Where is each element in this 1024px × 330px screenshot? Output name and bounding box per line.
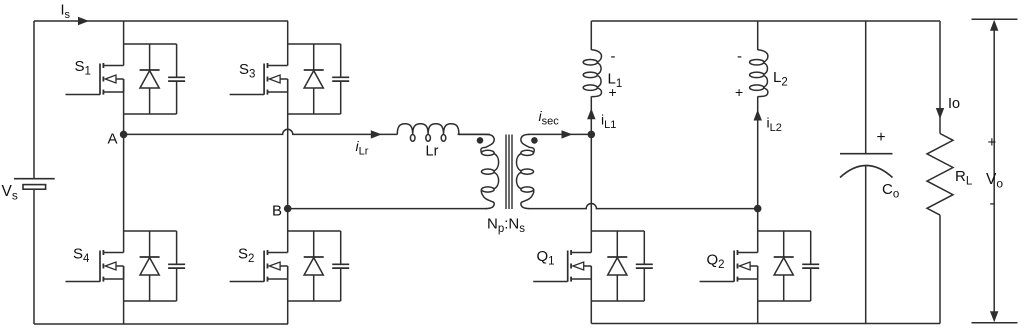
wire: left rail upper (Vs + to top bus) [33,21,35,178]
svg-text:isec: isec [539,108,560,128]
transistor Q1 [533,250,591,282]
svg-text:-: - [611,48,616,65]
wire: secondary top bus [591,20,940,22]
snubber capacitor of S4 [168,231,185,301]
wire: node A down to S4 drain [123,134,125,252]
wire: Q1 source to secondary bottom bus [590,266,592,324]
wire: bottom rail of S1 cell [124,113,177,115]
battery Vs [14,179,55,190]
snubber capacitor of S1 [168,44,185,114]
body diode of Q2 [774,231,794,301]
svg-text:Co: Co [882,181,899,201]
svg-text:Np:Ns: Np:Ns [487,216,525,236]
svg-text:iLr: iLr [356,138,369,158]
wire: bottom rail of S3 cell [288,113,341,115]
wire: top bus down to L1 [590,21,592,50]
wire: secondary top to L1 node [529,133,592,135]
inductor L1 [591,50,601,62]
transistor S2 [230,250,288,282]
wire: L1 bottom to junction node [590,96,592,134]
wire: top rail of Q1 cell [591,230,644,232]
snubber capacitor of Q2 [802,231,819,301]
primary phase dot [477,137,484,144]
wire: L1 node down to Q1 drain [590,134,592,252]
body diode of S1 [140,44,160,114]
wire: RL bottom to bottom bus [939,215,941,323]
svg-text:+: + [735,84,743,100]
transformer core [506,135,512,210]
wire: top rail of Q2 cell [758,230,811,232]
svg-text:Vs: Vs [2,183,18,203]
svg-text:Is: Is [61,3,71,22]
wire: primary bottom to node B [288,208,487,210]
node: isec / L1 / Q1 junction dot [588,131,596,139]
svg-text:S1: S1 [75,58,91,78]
transformer secondary winding Ns [521,134,534,153]
svg-text:B: B [272,203,282,220]
wire: node B down to S2 drain [287,209,289,253]
wire: top rail of S1 cell [124,43,177,45]
wire: L2 bottom to node [757,96,759,208]
transistor S4 [66,250,124,282]
svg-text:+: + [877,129,886,146]
wire: bottom rail of Q2 cell [758,300,811,302]
wire: top rail of S4 cell [124,230,177,232]
node B junction dot [284,205,292,213]
body diode of S2 [304,231,324,301]
body diode of Q1 [607,231,627,301]
secondary phase dot [531,137,538,144]
svg-text:-: - [990,195,995,212]
svg-text:+: + [609,84,617,100]
wire: top bus down to L2 [757,21,759,50]
wire: S4 source to bottom bus [123,266,125,324]
wire: S1 source down to node A [123,79,125,134]
wire: Q2 source to secondary bottom bus [757,266,759,324]
wire: bottom rail of S2 cell [288,300,341,302]
body diode of S4 [140,231,160,301]
inductor L2 [758,50,768,62]
svg-text:Q1: Q1 [537,248,555,268]
svg-text:A: A [108,131,118,148]
wire: Lr to transformer primary [458,133,491,135]
snubber capacitor of S3 [332,44,349,114]
wire: S2 source to bottom bus [287,266,289,324]
wire: node down to Q2 drain [757,209,759,253]
arrow iLr current direction [371,130,382,138]
transistor S1 [66,63,124,95]
inductor Lr [397,124,459,135]
node: L2 / Q2 / rectifier junction dot [754,205,762,213]
body diode of S3 [304,44,324,114]
svg-text:Q2: Q2 [707,252,725,272]
arrow Vo double-headed measure line [990,20,998,322]
wire: node A to Lr (with hop over S3 leg) [124,129,398,134]
svg-text:+: + [988,134,997,151]
wire: S1 drain to top bus [123,21,125,66]
transformer primary winding Np [459,133,487,135]
transistor Q2 [700,250,758,282]
wire: left rail lower (Vs - to bottom bus) [33,189,35,324]
svg-text:Lr: Lr [426,144,439,160]
svg-text:S2: S2 [238,246,254,266]
svg-text:iL1: iL1 [601,112,616,132]
arrow isec current direction [562,130,573,138]
node A junction dot [120,131,128,139]
svg-text:-: - [737,48,742,65]
wire: Co bottom lead [865,165,867,323]
svg-text:Vo: Vo [986,171,1003,191]
transistor S3 [230,63,288,95]
wire: Vo top tick [972,18,1018,20]
snubber capacitor of S2 [332,231,349,301]
wire: top bus down to RL [939,21,941,134]
svg-text:S4: S4 [73,246,90,266]
wire: secondary bottom bus [591,323,940,325]
wire: primary bottom bus [34,323,288,325]
svg-text:RL: RL [955,168,973,188]
wire: top rail of S3 cell [288,43,341,45]
svg-text:Io: Io [948,96,960,112]
snubber capacitor of Q1 [636,231,653,301]
arrow iL1 current direction [587,108,595,119]
svg-text:L2: L2 [773,69,788,89]
capacitor Co (polarized) [840,154,893,178]
wire: Vo bottom tick [972,322,1018,324]
arrow Io current direction [936,108,944,119]
wire: S3 drain to top bus [287,21,289,66]
arrow iL2 current direction [754,110,762,121]
svg-text:S3: S3 [239,61,255,81]
resistor RL [927,134,953,216]
arrow Is current direction [78,17,89,25]
wire: S3 source down to node B [287,79,289,209]
wire: secondary bottom out (hop over Q1 leg) to L2/Q2 node [529,204,758,209]
wire: top bus down to Co [865,21,867,154]
wire: bottom rail of Q1 cell [591,300,644,302]
wire: top rail of S2 cell [288,230,341,232]
wire: bottom rail of S4 cell [124,300,177,302]
wire: primary top bus [34,20,288,22]
svg-text:iL2: iL2 [767,115,782,135]
